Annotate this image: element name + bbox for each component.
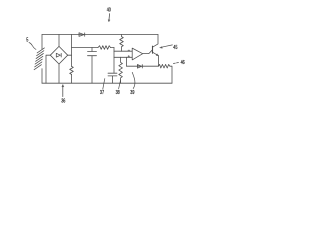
resistor 46 bbox=[158, 64, 169, 68]
wire vertical x114 bbox=[113, 48, 115, 73]
svg-text:5: 5 bbox=[26, 37, 28, 43]
resistor vertical near bridge bbox=[70, 66, 74, 74]
resistor R1 horizontal bbox=[98, 46, 111, 50]
piezo sensor 5 wire top bbox=[41, 35, 43, 50]
wire bridge right stub bbox=[68, 54, 72, 56]
node wire y47.5 bbox=[72, 47, 99, 49]
wire below resistor bbox=[71, 74, 73, 83]
wire op-amp upper input bbox=[114, 50, 132, 52]
transistor Q1 bar bbox=[152, 46, 154, 53]
svg-text:38: 38 bbox=[116, 89, 120, 95]
diode D1 on top rail bbox=[79, 33, 84, 37]
svg-text:40: 40 bbox=[107, 7, 111, 13]
piezo sensor 5 hatch bbox=[34, 48, 44, 70]
capacitor C1 bbox=[91, 48, 93, 52]
diode inside bridge bbox=[56, 53, 60, 57]
svg-text:45: 45 bbox=[173, 44, 177, 50]
wire bridge bottom bbox=[58, 64, 60, 83]
svg-text:39: 39 bbox=[130, 89, 134, 95]
bottom rail bbox=[42, 82, 172, 84]
svg-text:37: 37 bbox=[100, 89, 104, 95]
svg-text:46: 46 bbox=[181, 59, 185, 65]
diode 39 in feedback bbox=[137, 65, 141, 69]
wire feedback drop bbox=[126, 57, 128, 66]
piezo sensor 5 wire bottom bbox=[41, 69, 43, 84]
op-amp U1 bbox=[132, 48, 143, 60]
wire R1 to node bbox=[111, 47, 115, 49]
transistor collector bbox=[153, 35, 159, 48]
top rail bbox=[42, 34, 158, 36]
capacitor 37 bbox=[108, 72, 117, 74]
wire emitter down bbox=[157, 56, 159, 66]
wire vertical node x71.5 bbox=[71, 35, 73, 67]
minus mark bbox=[128, 49, 130, 51]
wire feedback horizontal bbox=[127, 65, 159, 67]
svg-text:36: 36 bbox=[61, 98, 65, 104]
transistor emitter with arrow bbox=[153, 52, 159, 56]
resistor R2 from rail bbox=[120, 35, 124, 52]
wire op-amp output bbox=[143, 50, 153, 54]
wire bridge left to bottom rail bbox=[46, 55, 50, 83]
plus mark bbox=[128, 55, 130, 57]
leader for 5 bbox=[29, 43, 36, 50]
resistor 38 vertical bbox=[119, 57, 123, 83]
wire op-amp lower input bbox=[114, 56, 132, 58]
wire bridge top bbox=[58, 35, 60, 47]
bridge rectifier diamond bbox=[50, 46, 67, 64]
wire right end to bottom rail bbox=[170, 66, 172, 83]
